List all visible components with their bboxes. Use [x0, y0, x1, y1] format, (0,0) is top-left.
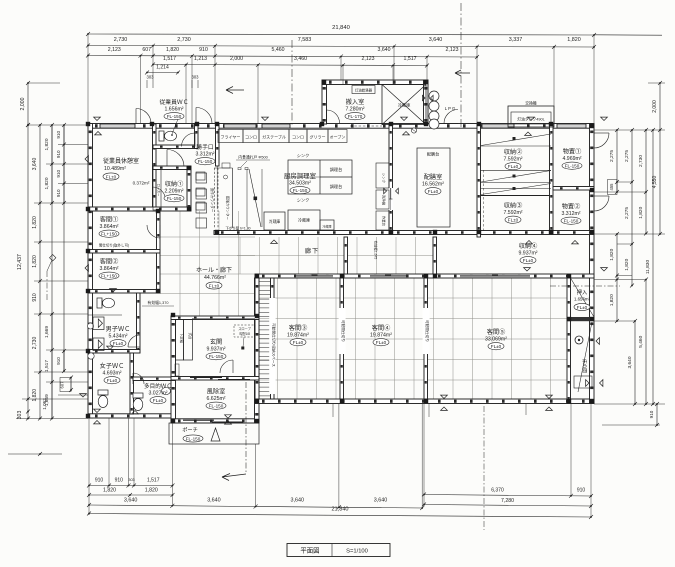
- oshiire bottom wall thick: [567, 317, 594, 321]
- svg-text:44.766m²: 44.766m²: [204, 275, 226, 281]
- svg-text:2,000: 2,000: [652, 100, 658, 113]
- svg-text:灯油給湯器: 灯油給湯器: [355, 87, 373, 92]
- right extension stubs: [594, 83, 665, 425]
- katteguchi exterior door arc: [196, 108, 212, 124]
- svg-text:1,820: 1,820: [567, 37, 581, 43]
- svg-text:3.864m²: 3.864m²: [99, 224, 118, 230]
- multipurpose WC washbasin: [162, 388, 171, 395]
- bottom dim row A right: [424, 495, 591, 497]
- kerosene heater box in delivery room: [352, 86, 375, 94]
- corridor bottom wall: [255, 274, 594, 278]
- mens WC bottom wall: [88, 350, 140, 354]
- leader line employee WC: [172, 119, 178, 134]
- svg-text:収納②: 収納②: [504, 148, 523, 156]
- svg-text:FL±0: FL±0: [577, 305, 588, 310]
- svg-text:303: 303: [128, 478, 134, 482]
- svg-text:910: 910: [32, 293, 38, 302]
- svg-text:21,840: 21,840: [331, 507, 348, 513]
- svg-text:1,517: 1,517: [404, 56, 417, 62]
- svg-text:910: 910: [56, 150, 61, 158]
- svg-text:勝手口: 勝手口: [196, 143, 214, 151]
- mens WC door arc: [128, 335, 140, 347]
- svg-text:21,840: 21,840: [332, 25, 350, 31]
- urinals: [93, 317, 104, 330]
- svg-text:5.434m²: 5.434m²: [108, 334, 127, 340]
- svg-text:FL±0: FL±0: [293, 340, 304, 345]
- svg-text:3.864m²: 3.864m²: [99, 266, 118, 272]
- svg-text:1,820: 1,820: [145, 488, 158, 494]
- windbreak block bottom wall: [171, 419, 259, 423]
- svg-text:34.503m²: 34.503m²: [289, 181, 311, 187]
- svg-text:客間②: 客間②: [100, 258, 119, 266]
- svg-text:冷蔵庫: 冷蔵庫: [322, 224, 331, 229]
- storage1 door arc: [167, 150, 184, 167]
- right dim col x653 (11830): [652, 130, 654, 404]
- svg-text:多目的ＷＣ: 多目的ＷＣ: [144, 382, 172, 390]
- svg-text:FL±0: FL±0: [508, 218, 519, 223]
- bottom dim row C: [89, 505, 422, 508]
- kitchen island: [288, 160, 352, 194]
- left dim col3: [51, 125, 53, 419]
- slope note in genkan: [234, 325, 255, 337]
- svg-text:女子ＷＣ: 女子ＷＣ: [100, 362, 125, 370]
- svg-text:1,062: 1,062: [42, 398, 47, 410]
- porch outline: [169, 423, 259, 444]
- womens WC toilet: [98, 390, 108, 408]
- svg-text:男子ＷＣ: 男子ＷＣ: [106, 326, 131, 333]
- svg-text:6.625m²: 6.625m²: [206, 396, 225, 402]
- marker circle cross: [411, 128, 416, 133]
- LPG vent marks: [422, 95, 425, 100]
- svg-text:玄関: 玄関: [210, 338, 222, 346]
- svg-text:910: 910: [199, 47, 208, 53]
- counter stools: [196, 173, 207, 183]
- left dim col4: [63, 125, 65, 371]
- svg-text:3.312m²: 3.312m²: [561, 211, 580, 217]
- svg-text:フライヤー: フライヤー: [221, 134, 241, 140]
- svg-text:2,000: 2,000: [230, 56, 243, 62]
- svg-text:1,820: 1,820: [624, 258, 630, 270]
- svg-text:3,460: 3,460: [294, 56, 307, 62]
- svg-text:33.069m²: 33.069m²: [485, 337, 507, 343]
- svg-text:調理台: 調理台: [330, 166, 343, 173]
- svg-text:式台: 式台: [188, 333, 193, 340]
- window top wall shed1: [557, 124, 586, 128]
- svg-text:コンロ: コンロ: [292, 135, 304, 140]
- svg-text:FL±0: FL±0: [376, 340, 387, 345]
- hall-side wall guest1-2: [157, 211, 161, 293]
- svg-text:3,640: 3,640: [429, 37, 443, 43]
- svg-text:3,640: 3,640: [374, 498, 388, 504]
- svg-text:1,213: 1,213: [194, 56, 207, 62]
- svg-text:1.656m²: 1.656m²: [164, 107, 183, 113]
- tokonoma diagonal and pillar: [578, 322, 592, 392]
- left dim 607 box: [60, 378, 71, 392]
- svg-text:3.312m²: 3.312m²: [195, 152, 214, 158]
- exterior wall bottom guest rooms: [255, 399, 594, 404]
- svg-text:収納①: 収納①: [165, 180, 184, 188]
- svg-text:FL-150: FL-150: [209, 354, 224, 359]
- katteguchi right wall upper: [216, 124, 220, 166]
- bottom dim row B left: [89, 494, 173, 496]
- katteguchi passage line: [216, 166, 218, 209]
- svg-text:303: 303: [147, 75, 155, 80]
- movable partition labels: [339, 308, 346, 354]
- svg-text:廊下: 廊下: [305, 247, 319, 255]
- guest1/guest2 divider: [88, 250, 160, 254]
- svg-text:3,640: 3,640: [124, 498, 138, 504]
- svg-text:FL±0: FL±0: [523, 258, 534, 263]
- svg-text:11,830: 11,830: [645, 260, 651, 275]
- svg-text:12,437: 12,437: [17, 254, 23, 270]
- oshiire dashdot line: [550, 285, 620, 287]
- svg-text:1,820: 1,820: [609, 248, 615, 260]
- svg-text:厨房調理室: 厨房調理室: [284, 171, 317, 180]
- genkan block left wall: [171, 316, 176, 423]
- storage shelf dashed edge: [483, 170, 485, 232]
- porch step triangle: [211, 428, 220, 441]
- svg-text:0.372m²: 0.372m²: [133, 181, 150, 186]
- mens WC stall wall: [88, 314, 122, 316]
- svg-text:910: 910: [95, 478, 104, 484]
- svg-text:1,820: 1,820: [638, 206, 644, 218]
- svg-text:19.874m²: 19.874m²: [287, 333, 309, 339]
- dimension row 21840 top: [594, 34, 662, 36]
- svg-text:内食通れ戸 Φ500: 内食通れ戸 Φ500: [238, 155, 267, 160]
- svg-text:可動間仕切り: 可動間仕切り: [425, 320, 430, 342]
- svg-text:2,275: 2,275: [624, 150, 630, 162]
- svg-text:グリラー: グリラー: [310, 134, 326, 140]
- cold storage box with X: [382, 85, 426, 125]
- genkan wall handrail: [175, 364, 179, 376]
- tatami grid guest rooms: [160, 211, 570, 399]
- guest1 door arc: [147, 225, 160, 238]
- partition storage label: [269, 298, 275, 394]
- svg-text:4.693m²: 4.693m²: [102, 371, 121, 377]
- svg-text:3,337: 3,337: [509, 37, 523, 43]
- movable partition 4/5: [424, 278, 428, 399]
- rest room / WC block wall: [153, 124, 157, 211]
- svg-text:2,123: 2,123: [362, 56, 375, 62]
- svg-text:2,730: 2,730: [638, 155, 644, 167]
- svg-text:間仕切り(取外し可): 間仕切り(取外し可): [99, 243, 129, 248]
- svg-text:5,460: 5,460: [272, 47, 285, 53]
- genkan hall door arc: [220, 360, 233, 373]
- svg-text:客間⑤: 客間⑤: [487, 328, 506, 336]
- svg-text:勾配1/8: 勾配1/8: [239, 331, 250, 336]
- svg-text:2,730: 2,730: [32, 337, 38, 350]
- svg-text:ガステーブル: ガステーブル: [262, 134, 286, 140]
- svg-text:910: 910: [56, 189, 61, 197]
- svg-text:FL±0: FL±0: [209, 283, 220, 288]
- svg-text:303: 303: [192, 75, 200, 80]
- svg-text:FL±0: FL±0: [107, 378, 118, 383]
- svg-text:搬入室: 搬入室: [346, 98, 365, 106]
- dimension row2 top: [88, 46, 594, 48]
- storage1 left strip: [153, 170, 161, 211]
- employee WC bottom wall: [153, 145, 198, 149]
- svg-text:7,583: 7,583: [298, 37, 312, 43]
- right dim col x635 (3640): [634, 321, 636, 404]
- storage4 left wall: [433, 237, 437, 274]
- svg-text:交換機: 交換機: [525, 101, 537, 106]
- delivery room right wall: [424, 80, 429, 124]
- svg-text:4,550: 4,550: [652, 176, 658, 189]
- svg-text:2,123: 2,123: [446, 47, 459, 53]
- svg-text:FL-150: FL-150: [186, 436, 201, 441]
- kerosene tank box: [508, 106, 554, 127]
- window top wall storage2: [482, 124, 514, 128]
- window top wall kitchen 1: [224, 124, 256, 128]
- svg-text:910: 910: [115, 478, 124, 484]
- refrigerator boxes: [264, 212, 285, 230]
- svg-text:455: 455: [609, 183, 614, 191]
- delivery room top wall: [322, 80, 428, 85]
- title box: [287, 544, 390, 557]
- svg-text:オーブン: オーブン: [330, 134, 346, 140]
- svg-text:FL±0: FL±0: [106, 174, 117, 179]
- slope diagonal in kitchen: [249, 169, 261, 227]
- exterior wall left: [88, 124, 93, 419]
- oshiire left wall: [567, 278, 571, 403]
- svg-text:FL-150: FL-150: [198, 159, 213, 164]
- svg-text:9.937m²: 9.937m²: [206, 347, 225, 353]
- partition storage hatch rungs: [259, 282, 271, 396]
- movable partition 3/4: [340, 278, 344, 399]
- genkan-vestibule sliding door: [190, 377, 222, 379]
- svg-text:6,370: 6,370: [491, 488, 504, 494]
- svg-text:607: 607: [142, 47, 151, 53]
- svg-text:7.592m²: 7.592m²: [503, 157, 522, 163]
- svg-text:2,275: 2,275: [624, 207, 630, 219]
- svg-text:ポーチ: ポーチ: [182, 426, 198, 434]
- svg-text:2,123: 2,123: [108, 47, 121, 53]
- employee WC right wall: [195, 124, 199, 149]
- kitchen equipment row: [218, 130, 243, 143]
- svg-text:2,730: 2,730: [177, 37, 191, 43]
- right dim col x632: [631, 130, 633, 286]
- top extension lines: [88, 35, 594, 124]
- svg-text:ロッカー: ロッカー: [157, 184, 162, 197]
- right dim col x646: [645, 130, 647, 234]
- svg-text:4.969m²: 4.969m²: [562, 156, 581, 162]
- svg-text:1,820: 1,820: [609, 294, 615, 306]
- section markers: [94, 117, 101, 120]
- svg-text:1,517: 1,517: [44, 360, 50, 372]
- svg-text:可動間仕切り収納スペース: 可動間仕切り収納スペース: [271, 323, 276, 367]
- rest room door arc: [153, 187, 166, 200]
- svg-text:従業員休憩室: 従業員休憩室: [103, 157, 139, 165]
- serving counter strip: [214, 168, 216, 228]
- svg-text:冷蔵庫: 冷蔵庫: [269, 219, 281, 224]
- svg-text:1,820: 1,820: [32, 216, 38, 229]
- kitchen bottom wall / corridor top: [214, 231, 594, 235]
- left dim col1 (2000 / 12437 / 303): [27, 83, 29, 125]
- bottom dim row B right: [424, 505, 591, 507]
- exterior wall right: [590, 124, 595, 404]
- employee WC toilet: [159, 131, 177, 141]
- svg-text:物置①: 物置①: [563, 148, 582, 156]
- shed1/shed2 divider: [553, 187, 594, 191]
- serving room door opening: [388, 188, 393, 210]
- svg-text:3.027m²: 3.027m²: [148, 391, 167, 397]
- svg-text:FL-170: FL-170: [348, 114, 363, 119]
- svg-text:3,640: 3,640: [291, 498, 305, 504]
- womens WC right wall: [130, 353, 134, 414]
- svg-text:1,517: 1,517: [163, 56, 176, 62]
- porch exit dashdot and arrow: [245, 382, 247, 474]
- vestibule entrance sliding door: [183, 419, 214, 421]
- svg-text:910: 910: [577, 488, 586, 494]
- svg-text:冷蔵庫: 冷蔵庫: [298, 217, 310, 223]
- left extension stubs: [16, 83, 88, 419]
- svg-text:3,640: 3,640: [207, 498, 221, 504]
- svg-text:FL±0: FL±0: [113, 341, 124, 346]
- svg-text:3,640: 3,640: [378, 47, 391, 53]
- delivery room left wall: [322, 80, 327, 124]
- svg-text:FL-150: FL-150: [564, 219, 579, 224]
- delivery room door arc: [327, 110, 340, 123]
- svg-text:シンク: シンク: [382, 173, 387, 183]
- bottom dim row A left: [89, 485, 173, 487]
- svg-text:16.562m²: 16.562m²: [422, 182, 444, 188]
- svg-text:有効幅1,675: 有効幅1,675: [374, 241, 379, 260]
- svg-text:平面図: 平面図: [300, 547, 319, 555]
- svg-text:1,820: 1,820: [166, 47, 179, 53]
- partition storage strip right wall: [271, 278, 275, 399]
- dimension row5 top 1214: [147, 72, 178, 74]
- centerline dashdot right: [460, 3, 462, 128]
- svg-text:客間①: 客間①: [100, 216, 119, 224]
- mens WC washbasin: [88, 323, 94, 329]
- mens WC right wall: [137, 293, 141, 353]
- svg-text:1,820: 1,820: [32, 255, 38, 268]
- svg-text:2,000: 2,000: [20, 97, 26, 110]
- bottom extension lines: [89, 404, 591, 517]
- exterior wall top: [88, 124, 594, 129]
- kitchen dashed passage: [350, 125, 382, 127]
- oshiire diagonal: [571, 278, 595, 317]
- svg-text:2.209m²: 2.209m²: [164, 189, 183, 195]
- svg-text:7.592m²: 7.592m²: [503, 210, 522, 216]
- svg-text:9.937m²: 9.937m²: [518, 251, 537, 257]
- svg-text:19.874m²: 19.874m²: [370, 333, 392, 339]
- svg-text:押入: 押入: [577, 288, 587, 296]
- right dim 910 bottom: [656, 404, 658, 425]
- top arrow mark: [226, 87, 244, 94]
- katteguchi shelf boxes: [196, 172, 205, 180]
- wall junction posts: [86, 80, 594, 423]
- svg-text:1,214: 1,214: [156, 65, 169, 71]
- kitchen / serving room wall: [389, 124, 393, 234]
- svg-text:910: 910: [56, 357, 61, 365]
- svg-text:配膳カウンター: 配膳カウンター: [226, 196, 231, 220]
- svg-text:FL+150: FL+150: [101, 274, 117, 279]
- storage / shed wall: [550, 124, 554, 234]
- serving / storage2 wall: [477, 124, 481, 237]
- centerline dashdot left: [291, 40, 293, 126]
- left margin bottom stub: [8, 453, 62, 455]
- storage1 right wall: [187, 166, 191, 210]
- womens WC door arc: [133, 373, 144, 384]
- svg-text:配膳室: 配膳室: [424, 173, 443, 181]
- svg-text:冷蔵庫: 冷蔵庫: [398, 102, 411, 109]
- svg-text:2,275: 2,275: [609, 150, 615, 162]
- kitchen right side boxes: [376, 163, 389, 188]
- genkan shikidai: [184, 320, 193, 361]
- genkan / windbreak divider: [171, 377, 259, 381]
- right dim col x660: [659, 83, 661, 234]
- genkan shoe box: [176, 320, 184, 361]
- shed2 door arc (right wall, opens out): [594, 196, 609, 211]
- womens WC washbasin: [88, 353, 94, 359]
- svg-text:1,820: 1,820: [44, 138, 50, 150]
- svg-text:FL+150: FL+150: [101, 232, 117, 237]
- svg-text:風除室: 風除室: [207, 388, 226, 396]
- svg-text:調理台: 調理台: [330, 183, 343, 190]
- svg-text:7,280: 7,280: [501, 498, 514, 504]
- storage1 top wall: [153, 166, 190, 170]
- svg-text:ホール・廊下: ホール・廊下: [196, 266, 232, 274]
- svg-text:従業員ＷＣ: 従業員ＷＣ: [160, 98, 189, 106]
- corridor sliding doors to guest rooms: [296, 275, 333, 278]
- svg-text:有効幅1,370: 有効幅1,370: [148, 300, 169, 305]
- svg-text:FL±0: FL±0: [491, 344, 502, 349]
- employee WC exterior door arc: [136, 109, 151, 124]
- left dim col2: [39, 125, 41, 419]
- svg-text:物置②: 物置②: [562, 203, 581, 211]
- svg-text:収納④: 収納④: [519, 242, 538, 250]
- window top wall kitchen 2: [262, 124, 290, 128]
- guest room centre dashdot extension: [483, 406, 485, 530]
- svg-text:1,820: 1,820: [32, 389, 38, 402]
- svg-text:可動間仕切り: 可動間仕切り: [341, 320, 346, 342]
- svg-text:S=1/100: S=1/100: [346, 549, 368, 555]
- benchmark mark: [50, 255, 56, 261]
- svg-text:5,460: 5,460: [638, 335, 644, 347]
- window top wall rest room: [100, 124, 135, 128]
- svg-text:10.489m²: 10.489m²: [104, 166, 126, 172]
- mens WC stall toilet: [97, 298, 115, 308]
- svg-text:FL±0: FL±0: [153, 398, 164, 403]
- storage2/3 divider line: [481, 195, 553, 197]
- svg-text:910: 910: [56, 169, 61, 177]
- svg-text:910: 910: [649, 410, 654, 418]
- partition storage strip left wall: [255, 278, 259, 399]
- svg-text:作業台: 作業台: [382, 216, 387, 227]
- svg-text:収納③: 収納③: [504, 202, 523, 210]
- serving table: [417, 148, 450, 227]
- employee WC interior door arc: [182, 133, 196, 147]
- corridor divider wall: [344, 237, 348, 274]
- shed1 door arc (right wall, opens out): [594, 133, 609, 148]
- svg-text:1,669: 1,669: [44, 326, 50, 338]
- svg-text:1,820: 1,820: [44, 177, 50, 189]
- dimension row3 top: [88, 56, 477, 58]
- rest room bottom wall: [88, 207, 191, 211]
- svg-text:FL±0: FL±0: [508, 164, 519, 169]
- svg-text:1.656m²: 1.656m²: [574, 297, 591, 302]
- svg-text:303: 303: [17, 411, 23, 420]
- svg-text:FL-150: FL-150: [167, 114, 182, 119]
- svg-text:3,640: 3,640: [32, 158, 38, 171]
- bottom dim row D 21840: [89, 514, 591, 518]
- svg-text:607: 607: [60, 381, 65, 389]
- svg-text:床の間: 床の間: [581, 359, 588, 373]
- guest2 / mens WC divider: [88, 290, 160, 294]
- exterior wall bottom-left WC block: [88, 414, 175, 418]
- multipurpose WC top wall: [133, 377, 175, 381]
